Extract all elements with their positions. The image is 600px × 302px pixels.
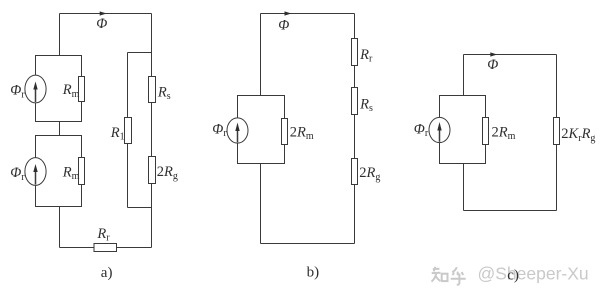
- wire: b source block outline: [238, 96, 285, 164]
- wire: b right vertical: [354, 14, 356, 244]
- resistor Rr (b): [352, 39, 358, 66]
- resistor 2Rg (b): [352, 159, 358, 185]
- wire: a parallel block bottom bar: [128, 207, 152, 209]
- svg-text:Rr: Rr: [96, 226, 110, 244]
- wire: c bottom vertical drop: [463, 164, 465, 211]
- svg-text:2Rm: 2Rm: [492, 125, 516, 143]
- wire: b left vertical drop: [260, 14, 262, 96]
- svg-text:Φr: Φr: [10, 165, 25, 183]
- svg-text:a): a): [101, 265, 113, 281]
- svg-text:Φr: Φr: [212, 122, 227, 140]
- wire: a source block 2 outline: [36, 136, 82, 207]
- svg-text:Φr: Φr: [414, 122, 429, 140]
- flux source Φr (b): [227, 118, 248, 143]
- svg-text:Rm: Rm: [62, 165, 80, 183]
- svg-text:Rs: Rs: [359, 96, 373, 114]
- svg-text:Φ: Φ: [96, 16, 107, 32]
- wire: a top-left vertical drop: [59, 14, 61, 56]
- resistor Rs (a): [149, 77, 156, 103]
- resistor R1 (a): [125, 118, 132, 144]
- resistor 2Rg (a): [149, 157, 156, 184]
- wire: circuit a top wire: [60, 13, 152, 15]
- svg-text:Φ: Φ: [487, 57, 498, 73]
- wire: a source block 1 outline: [36, 56, 82, 122]
- svg-text:Φr: Φr: [10, 83, 25, 101]
- flux source Φr (c): [429, 117, 450, 142]
- resistor Rm (a, upper): [79, 77, 85, 102]
- svg-text:2Rg: 2Rg: [157, 164, 178, 182]
- svg-text:Rs: Rs: [157, 84, 171, 102]
- resistor 2Rm (b): [282, 119, 288, 145]
- wire: circuit b top wire: [261, 13, 355, 15]
- svg-text:2Rm: 2Rm: [290, 125, 314, 143]
- resistor 2Rm (c): [483, 118, 489, 145]
- svg-text:Rm: Rm: [62, 82, 80, 100]
- wire: a parallel block top bar: [128, 52, 152, 54]
- wire: b bottom wire: [261, 243, 355, 245]
- svg-text:b): b): [307, 265, 320, 281]
- wire: c left vertical drop: [463, 55, 465, 96]
- wire: b bottom vertical drop: [260, 164, 262, 244]
- wire: a bottom wire: [60, 247, 152, 249]
- flux source Φr (a, lower): [25, 158, 46, 186]
- wire: c bottom wire: [464, 210, 557, 212]
- svg-text:2KrRg: 2KrRg: [561, 126, 595, 144]
- wire: c right vertical: [556, 55, 558, 211]
- wire: a R1 branch vertical: [127, 53, 129, 208]
- wire: a bottom-left vertical drop: [59, 207, 61, 248]
- svg-text:@Sheeper-Xu: @Sheeper-Xu: [478, 264, 589, 284]
- svg-text:R1: R1: [110, 125, 125, 143]
- wire: c source block outline: [440, 96, 486, 164]
- resistor Rs (b): [352, 88, 358, 115]
- svg-text:2Rg: 2Rg: [359, 165, 380, 183]
- wire: junction between source blocks (a): [59, 122, 61, 136]
- svg-text:Rr: Rr: [359, 47, 373, 65]
- flux source Φr (a, upper): [25, 75, 46, 103]
- flux arrow head on top wire (c): [490, 52, 497, 56]
- wire: a right vertical: [151, 14, 153, 248]
- svg-text:c): c): [507, 267, 519, 283]
- resistor Rm (a, lower): [79, 158, 85, 185]
- flux arrow head on top wire (a): [100, 11, 107, 15]
- wire: circuit c top wire: [464, 54, 557, 56]
- watermark 知乎 (drawn strokes): [432, 267, 466, 285]
- svg-text:Φ: Φ: [278, 17, 289, 33]
- resistor 2KrRg (c): [554, 118, 560, 145]
- resistor Rr (a, bottom): [94, 244, 117, 252]
- flux arrow head on top wire (b): [285, 11, 292, 15]
